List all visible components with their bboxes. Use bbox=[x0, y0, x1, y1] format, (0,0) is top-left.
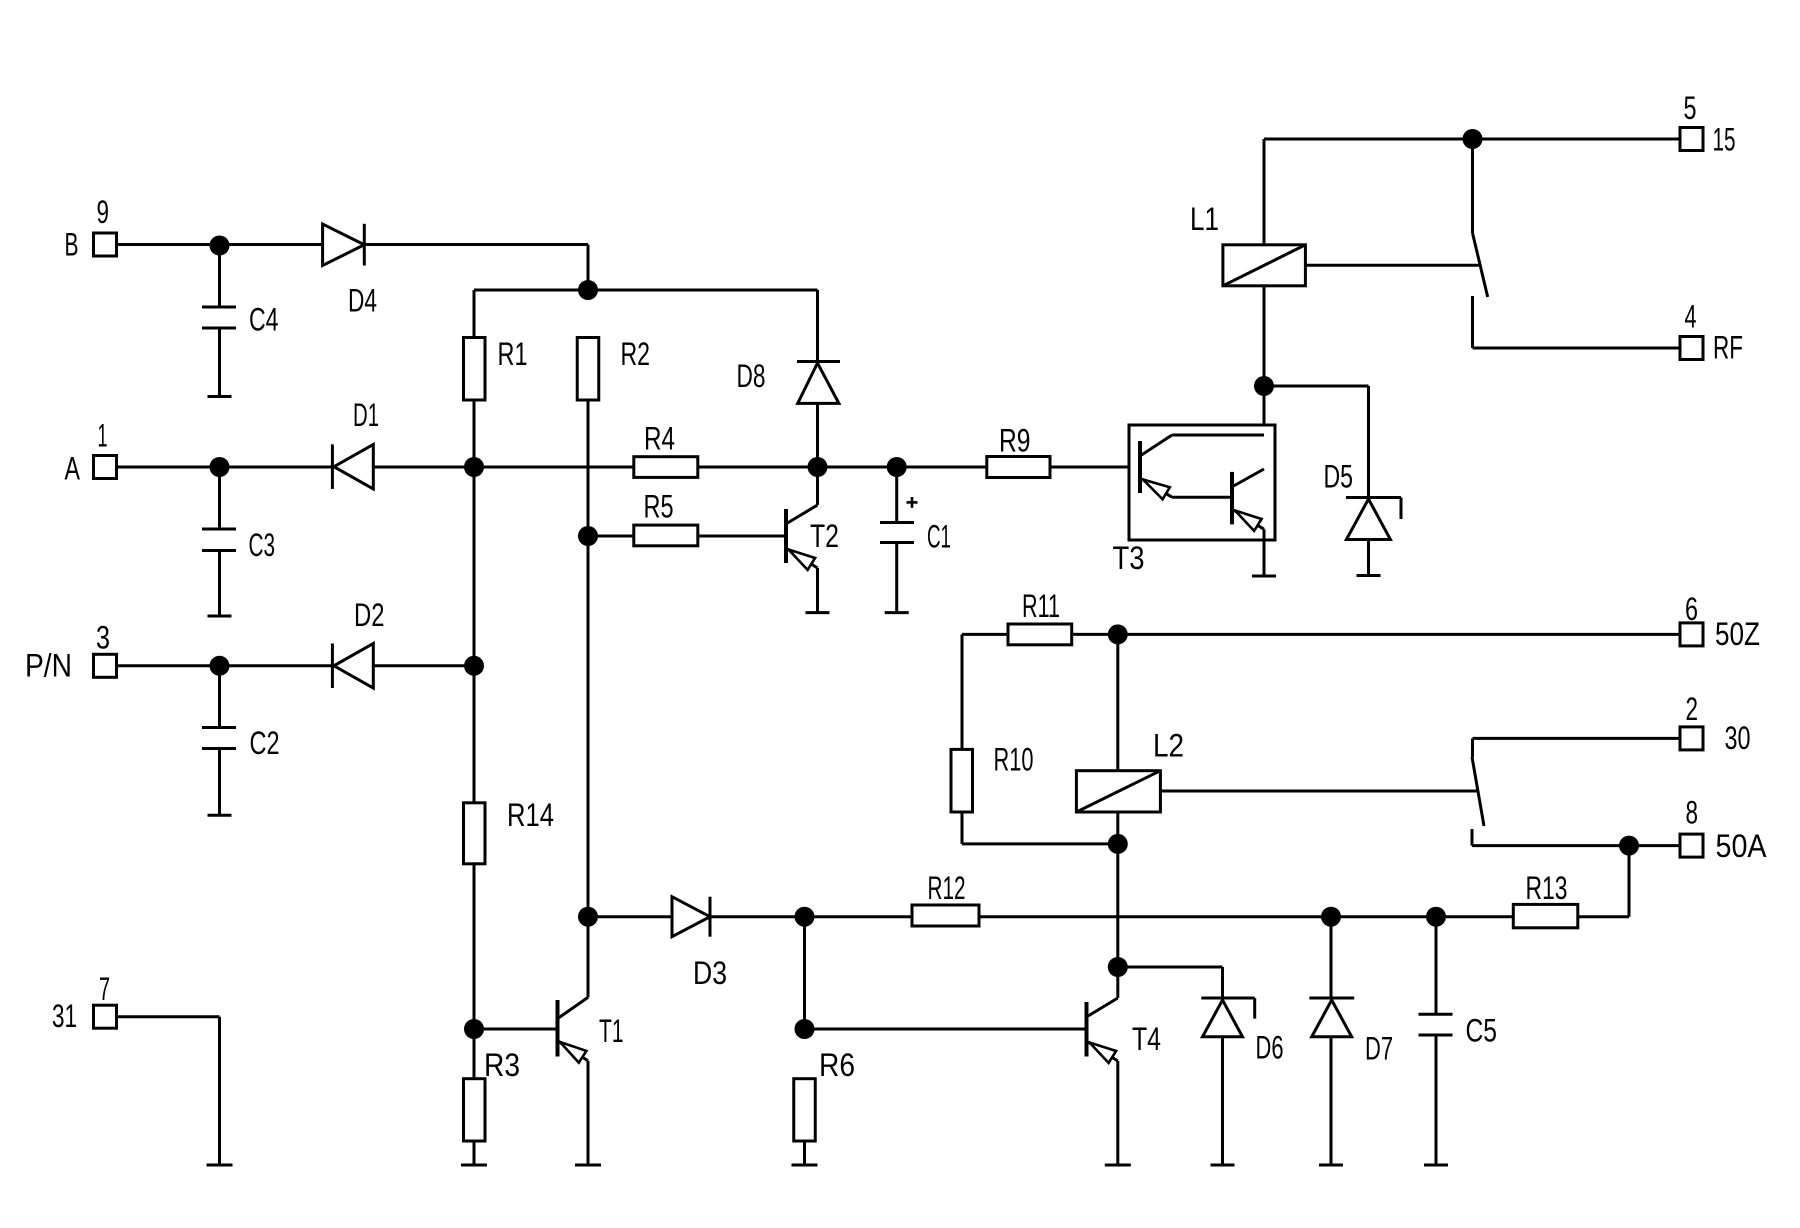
terminal square 5/15 bbox=[1680, 128, 1703, 151]
node PN-R14 junction bbox=[464, 656, 484, 676]
label 50Z bbox=[1715, 616, 1760, 652]
capacitor C3 bbox=[202, 467, 236, 616]
wire R5 from R2 bbox=[588, 535, 634, 538]
wire R14 top bbox=[473, 666, 476, 803]
svg-text:6: 6 bbox=[1685, 591, 1698, 627]
svg-text:D7: D7 bbox=[1365, 1031, 1393, 1067]
label R6 bbox=[819, 1047, 855, 1083]
node C5 junction bbox=[1426, 907, 1446, 927]
resistor R4 bbox=[634, 457, 698, 478]
label R14 bbox=[507, 797, 554, 833]
svg-text:RF: RF bbox=[1713, 330, 1743, 366]
node A-D8 junction bbox=[808, 457, 828, 477]
label R11 bbox=[1022, 588, 1060, 624]
node T1 base junction bbox=[464, 1019, 484, 1039]
label D6 bbox=[1256, 1030, 1284, 1066]
wire D2 to node bbox=[373, 664, 474, 667]
resistor R2 bbox=[577, 338, 599, 401]
node PN-C2 junction bbox=[210, 656, 230, 676]
relay coil L2 bbox=[1076, 771, 1160, 812]
wire R11 left bbox=[962, 634, 1008, 749]
svg-text:2: 2 bbox=[1686, 691, 1699, 727]
label A bbox=[65, 451, 81, 487]
wire R9 to T3 bbox=[1050, 466, 1140, 469]
svg-text:B: B bbox=[65, 227, 79, 263]
wire D7 top bbox=[1330, 917, 1333, 998]
transistor T3 box bbox=[1129, 425, 1275, 540]
label 1 bbox=[98, 418, 108, 454]
svg-text:50A: 50A bbox=[1716, 828, 1768, 864]
resistor R6 bbox=[794, 1079, 816, 1141]
label 31 bbox=[52, 998, 77, 1034]
label D5 bbox=[1324, 459, 1354, 495]
diode D3 bbox=[672, 897, 710, 937]
wire R6 column top bbox=[803, 917, 806, 1029]
wire A terminal to D1 bbox=[116, 466, 332, 469]
resistor R9 bbox=[987, 457, 1050, 478]
wire R13 to 50A node bbox=[1578, 846, 1629, 917]
wire L1 top bbox=[1263, 139, 1266, 245]
wire T3 collector bbox=[1263, 386, 1266, 469]
label B bbox=[65, 227, 79, 263]
switch contact L1 bbox=[1473, 139, 1488, 348]
label T4 bbox=[1132, 1021, 1161, 1057]
wire R10 bottom bbox=[962, 812, 1118, 844]
label D1 bbox=[353, 397, 379, 433]
svg-text:R12: R12 bbox=[928, 870, 966, 906]
node T4 collector junction bbox=[1108, 957, 1128, 977]
wire R1-R14 column bbox=[473, 467, 476, 666]
label R5 bbox=[644, 489, 674, 525]
wire top node row bbox=[474, 289, 818, 292]
diode D4 bbox=[323, 224, 365, 266]
capacitor C4 bbox=[202, 246, 236, 397]
label 8 bbox=[1686, 795, 1699, 831]
label C1 bbox=[927, 519, 951, 555]
svg-text:D4: D4 bbox=[348, 283, 377, 319]
svg-text:D8: D8 bbox=[737, 358, 766, 394]
resistor R10 bbox=[951, 749, 973, 812]
label C5 bbox=[1466, 1013, 1498, 1049]
svg-text:T3: T3 bbox=[1113, 540, 1145, 576]
terminal square 2/30 bbox=[1680, 727, 1703, 750]
terminal square 4/RF bbox=[1680, 337, 1703, 360]
node L1-T3-D5 junction bbox=[1254, 376, 1274, 396]
svg-text:D1: D1 bbox=[353, 397, 379, 433]
node 15 junction bbox=[1463, 129, 1483, 149]
label C4 bbox=[249, 302, 279, 338]
terminal square 8/50A bbox=[1680, 834, 1703, 857]
label 50A bbox=[1716, 828, 1768, 864]
terminal square 3/PN bbox=[94, 654, 117, 677]
node T4 base junction bbox=[795, 1019, 815, 1039]
svg-text:R3: R3 bbox=[484, 1047, 520, 1083]
svg-text:T1: T1 bbox=[599, 1013, 624, 1049]
resistor R13 bbox=[1513, 904, 1578, 927]
label 30 bbox=[1725, 720, 1751, 756]
svg-text:C1: C1 bbox=[927, 519, 951, 555]
label L2 bbox=[1153, 728, 1184, 764]
label R9 bbox=[999, 423, 1031, 459]
svg-text:D6: D6 bbox=[1256, 1030, 1284, 1066]
transistor T2 bbox=[786, 467, 830, 613]
svg-text:R6: R6 bbox=[819, 1047, 855, 1083]
label 4 bbox=[1685, 299, 1697, 335]
capacitor C5 bbox=[1419, 917, 1453, 1165]
svg-text:R10: R10 bbox=[994, 742, 1034, 778]
svg-text:T4: T4 bbox=[1132, 1021, 1161, 1057]
wire D4 to corner bbox=[364, 245, 588, 291]
wire L1 to blade bbox=[1305, 264, 1480, 267]
diode D6 bbox=[1201, 998, 1254, 1165]
relay coil L1 bbox=[1223, 245, 1306, 286]
diode D8 bbox=[797, 290, 840, 467]
label 9 bbox=[97, 194, 110, 230]
wire R3 top bbox=[473, 1029, 476, 1079]
label L1 bbox=[1190, 201, 1219, 237]
svg-text:C2: C2 bbox=[250, 725, 280, 761]
svg-text:R14: R14 bbox=[507, 797, 554, 833]
label 15 bbox=[1713, 122, 1736, 158]
capacitor C2 bbox=[202, 666, 236, 816]
diode D5 bbox=[1346, 498, 1401, 576]
wire R6 bottom bbox=[792, 1141, 818, 1165]
svg-text:R1: R1 bbox=[498, 336, 528, 372]
terminal square 6/50Z bbox=[1680, 623, 1703, 646]
transistor T1 bbox=[558, 917, 602, 1165]
terminal square 9/B bbox=[94, 233, 117, 256]
wire L1 bottom bbox=[1263, 286, 1266, 386]
label R4 bbox=[644, 421, 675, 457]
wire RF line bbox=[1473, 347, 1681, 350]
svg-text:8: 8 bbox=[1686, 795, 1699, 831]
label RF bbox=[1713, 330, 1743, 366]
node T1 collector junction bbox=[578, 907, 598, 927]
label R12 bbox=[928, 870, 966, 906]
svg-text:R5: R5 bbox=[644, 489, 674, 525]
diode D7 bbox=[1309, 998, 1354, 1165]
node R1-R2-D8 junction bbox=[578, 280, 598, 300]
wire D6 branch bbox=[1118, 967, 1223, 998]
transistor T3 Q2 bbox=[1232, 469, 1276, 576]
svg-text:C4: C4 bbox=[249, 302, 279, 338]
label 6 bbox=[1685, 591, 1698, 627]
wire P/N terminal to D2 bbox=[116, 664, 332, 667]
wire 50A line bbox=[1472, 844, 1680, 847]
label D8 bbox=[737, 358, 766, 394]
svg-text:C5: C5 bbox=[1466, 1013, 1498, 1049]
wire D3 anode bbox=[588, 915, 672, 918]
label R10 bbox=[994, 742, 1034, 778]
terminal square 1/A bbox=[94, 456, 117, 479]
wire L2 top bbox=[1116, 634, 1119, 770]
wire R6 node to R12 bbox=[805, 915, 913, 918]
wire R14 to T1 base node bbox=[473, 864, 476, 1029]
svg-text:T2: T2 bbox=[810, 518, 839, 554]
wire R2 column middle bbox=[587, 536, 590, 917]
resistor R14 bbox=[464, 803, 486, 864]
wire L2 to blade bbox=[1160, 790, 1477, 793]
label C3 bbox=[249, 527, 276, 563]
wire R12 to R13 bbox=[979, 915, 1513, 918]
node 50A junction bbox=[1619, 836, 1639, 856]
label R3 bbox=[484, 1047, 520, 1083]
capacitor C1 bbox=[880, 467, 914, 613]
svg-text:R13: R13 bbox=[1526, 870, 1568, 906]
wire L2 bottom bbox=[1116, 812, 1119, 844]
svg-text:R4: R4 bbox=[644, 421, 675, 457]
svg-text:31: 31 bbox=[52, 998, 77, 1034]
svg-text:9: 9 bbox=[97, 194, 110, 230]
svg-text:R9: R9 bbox=[999, 423, 1031, 459]
wire R4 to D8 node bbox=[698, 466, 818, 469]
transistor T3 Q1 bbox=[1140, 435, 1264, 499]
switch contact L2 bbox=[1472, 738, 1484, 845]
resistor R1 bbox=[464, 338, 486, 401]
node A-C1 junction bbox=[887, 457, 907, 477]
diode D2 bbox=[332, 644, 373, 689]
label R1 bbox=[498, 336, 528, 372]
svg-text:3: 3 bbox=[96, 620, 110, 656]
wire R2 bottom bbox=[587, 400, 590, 536]
svg-text:D2: D2 bbox=[354, 597, 385, 633]
wire L2 to T4 column bbox=[1116, 844, 1119, 967]
label R2 bbox=[621, 336, 651, 372]
label C1 plus bbox=[907, 497, 918, 508]
node L2-R10 junction bbox=[1108, 834, 1128, 854]
svg-text:1: 1 bbox=[98, 418, 108, 454]
label D2 bbox=[354, 597, 385, 633]
svg-text:A: A bbox=[65, 451, 81, 487]
node D7 junction bbox=[1321, 907, 1341, 927]
diode D1 bbox=[332, 444, 373, 489]
label 2 bbox=[1686, 691, 1699, 727]
svg-text:30: 30 bbox=[1725, 720, 1751, 756]
node A-C3 junction bbox=[210, 457, 230, 477]
label R13 bbox=[1526, 870, 1568, 906]
node B-C4 junction bbox=[210, 236, 230, 256]
wire T4 base bbox=[805, 1028, 1087, 1031]
label T1 bbox=[599, 1013, 624, 1049]
resistor R12 bbox=[912, 905, 979, 926]
svg-text:R2: R2 bbox=[621, 336, 651, 372]
svg-text:R11: R11 bbox=[1022, 588, 1060, 624]
label 7 bbox=[99, 971, 110, 1007]
label P/N bbox=[25, 648, 72, 684]
wire A row to R4 bbox=[474, 466, 634, 469]
node 50Z junction bbox=[1108, 624, 1128, 644]
wire D3 to R6 node bbox=[710, 915, 805, 918]
resistor R3 bbox=[464, 1079, 486, 1141]
svg-text:4: 4 bbox=[1685, 299, 1697, 335]
svg-text:7: 7 bbox=[99, 971, 110, 1007]
resistor R5 bbox=[634, 525, 698, 546]
node R2-R5 junction bbox=[578, 526, 598, 546]
wire 50Z line bbox=[1072, 633, 1680, 636]
wire T1 base bbox=[474, 1028, 558, 1031]
resistor R11 bbox=[1008, 624, 1072, 645]
wire 31 terminal bbox=[116, 1017, 233, 1165]
transistor T4 bbox=[1087, 967, 1131, 1165]
svg-text:D3: D3 bbox=[693, 955, 727, 991]
svg-text:C3: C3 bbox=[249, 527, 276, 563]
wire 15 line bbox=[1264, 138, 1680, 141]
svg-text:L2: L2 bbox=[1153, 728, 1184, 764]
label D3 bbox=[693, 955, 727, 991]
svg-text:P/N: P/N bbox=[25, 648, 72, 684]
label D4 bbox=[348, 283, 377, 319]
svg-text:L1: L1 bbox=[1190, 201, 1219, 237]
label T2 bbox=[810, 518, 839, 554]
wire B terminal to node bbox=[116, 243, 323, 246]
svg-text:D5: D5 bbox=[1324, 459, 1354, 495]
node D3-R6 junction bbox=[795, 907, 815, 927]
label T3 bbox=[1113, 540, 1145, 576]
node A-R1 junction bbox=[464, 457, 484, 477]
terminal square 7/31 bbox=[94, 1005, 117, 1028]
wire R3 bottom bbox=[461, 1141, 487, 1165]
label 3 bbox=[96, 620, 110, 656]
wire R5 to T2 base bbox=[698, 535, 786, 538]
label 5 bbox=[1684, 90, 1697, 126]
svg-text:50Z: 50Z bbox=[1715, 616, 1760, 652]
wire C1 node to R9 bbox=[897, 466, 987, 469]
wire D8 node to C1 node bbox=[818, 466, 897, 469]
label D7 bbox=[1365, 1031, 1393, 1067]
wire R1 bottom bbox=[473, 400, 476, 467]
label C2 bbox=[250, 725, 280, 761]
svg-text:15: 15 bbox=[1713, 122, 1736, 158]
svg-text:5: 5 bbox=[1684, 90, 1697, 126]
wire R1 top bbox=[473, 290, 476, 338]
wire D5 branch bbox=[1264, 386, 1369, 498]
wire D1 to node bbox=[373, 466, 474, 469]
wire 30 line bbox=[1473, 737, 1681, 740]
